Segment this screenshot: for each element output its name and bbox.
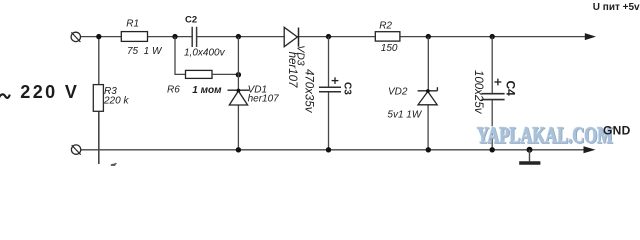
node C3 top	[326, 34, 331, 39]
node C2 right top	[236, 34, 241, 39]
svg-text:C3: C3	[341, 82, 352, 95]
terminal input top	[71, 32, 80, 41]
svg-text:C4: C4	[504, 81, 518, 97]
svg-text:YAPLAKAL.COM: YAPLAKAL.COM	[477, 123, 613, 148]
svg-text:100x25v: 100x25v	[472, 70, 484, 115]
wire C2/R6 parallel branch left	[175, 37, 186, 75]
capacitor C2	[193, 27, 196, 47]
svg-text:5v1 1W: 5v1 1W	[387, 110, 422, 121]
diode VD1	[228, 89, 250, 91]
svg-text:470x35v: 470x35v	[303, 69, 315, 114]
svg-text:1 мом: 1 мом	[192, 85, 222, 96]
terminal slash bottom	[72, 145, 81, 155]
wire R6 to VD1 branch	[212, 73, 238, 75]
wire C3 vertical	[328, 37, 330, 87]
plus C3	[332, 80, 339, 82]
capacitor C4	[481, 93, 504, 95]
terminal input bottom	[71, 145, 80, 154]
capacitor C3	[319, 86, 341, 88]
resistor R1	[121, 32, 147, 42]
wire bottom rail	[81, 149, 585, 151]
wire VD2 vertical	[427, 37, 429, 92]
cut-off arrowhead bottom left	[111, 163, 117, 167]
svg-text:R6: R6	[167, 84, 180, 95]
node ground tap	[527, 147, 533, 153]
label ~	[0, 94, 10, 99]
svg-text:220 V: 220 V	[20, 82, 79, 102]
svg-text:her107: her107	[286, 52, 298, 88]
wire top rail	[81, 36, 586, 38]
svg-text:75 1 W: 75 1 W	[127, 46, 163, 57]
node C4 bottom	[490, 147, 495, 152]
resistor R3	[93, 85, 103, 112]
svg-text:C2: C2	[185, 15, 197, 26]
node VD1 bottom	[236, 147, 241, 152]
node C2 left	[172, 34, 177, 39]
wire R3 vertical branch	[98, 37, 100, 85]
terminal slash top	[71, 32, 80, 42]
plus C4	[494, 81, 501, 83]
ground	[529, 150, 531, 162]
svg-text:1,0x400v: 1,0x400v	[184, 48, 226, 59]
svg-text:R2: R2	[379, 20, 392, 31]
svg-text:VD2: VD2	[388, 87, 408, 98]
svg-text:U пит +5v: U пит +5v	[593, 2, 640, 13]
svg-text:220 k: 220 k	[103, 96, 129, 107]
svg-text:GND: GND	[603, 124, 631, 138]
wire VD1 vertical	[237, 37, 239, 90]
node VD2 bottom	[426, 147, 431, 152]
svg-text:her107: her107	[248, 94, 280, 105]
node C4 top	[490, 34, 495, 39]
resistor R2	[375, 32, 400, 41]
svg-text:R1: R1	[126, 19, 139, 30]
watermark YAPLAKAL.COM	[476, 122, 613, 149]
diode VD3	[284, 27, 297, 46]
resistor R6	[186, 70, 213, 78]
arrow output top	[585, 33, 596, 40]
node C3 bottom	[326, 147, 331, 152]
node R6/VD1 junction	[236, 72, 241, 77]
zener diode VD2	[418, 90, 438, 92]
wire C4 vertical	[491, 37, 493, 93]
node VD2 top	[426, 34, 431, 39]
node top of R3	[96, 34, 101, 39]
arrow output bottom	[584, 146, 596, 153]
svg-text:150: 150	[381, 43, 398, 54]
